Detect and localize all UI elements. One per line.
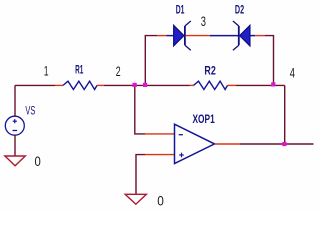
svg-text:D1: D1	[176, 3, 185, 17]
diode D2 anode lead	[250, 35, 255, 37]
svg-text:2: 2	[116, 63, 121, 79]
svg-text:4: 4	[290, 65, 295, 81]
wire: riser from node 2 up to diode branch	[145, 36, 157, 86]
diode D2 (cathode-side lead, node 3)	[210, 35, 239, 37]
svg-text:R2: R2	[204, 64, 216, 78]
svg-text:D2: D2	[235, 3, 244, 17]
ground 0 (bottom, op-amp plus input)	[125, 194, 146, 204]
wire: red stub right of R1	[97, 84, 104, 86]
wire: red segment node 3 between D1 and D2	[186, 35, 210, 37]
wire: node 2 horizontal segment	[104, 84, 190, 86]
wire: red stub at op-amp output	[215, 143, 240, 145]
voltage source VS	[5, 116, 24, 135]
wire: output run to the right	[240, 143, 314, 145]
wire: vertical VS lead above source	[14, 85, 16, 116]
wire: red stub right of D2	[255, 35, 265, 37]
wire: red stub into op-amp plus input	[145, 154, 175, 156]
resistor R1	[63, 81, 97, 89]
node junction dot at node 2 (inverting branch)	[133, 83, 137, 87]
wire: VS bottom lead	[14, 135, 16, 156]
svg-text:R1: R1	[75, 63, 83, 77]
diode D2 body	[233, 21, 250, 50]
resistor R2	[194, 81, 228, 89]
wire: main horizontal left segment node 1	[15, 84, 55, 86]
wire: red stub left of R2	[190, 84, 194, 86]
wire: plus input down to ground	[136, 155, 145, 195]
svg-text:3: 3	[201, 13, 206, 29]
svg-text:0: 0	[157, 192, 164, 208]
node junction dot at node 2 (diode branch riser)	[143, 83, 147, 87]
wire: node 4 step down to output	[284, 85, 286, 144]
svg-text:1: 1	[44, 63, 49, 79]
wire: node 2 drop to inverting input	[135, 85, 145, 133]
wire: red stub left of D1	[157, 35, 167, 37]
node junction dot at output	[282, 142, 286, 146]
ground 0 (left, under VS)	[5, 156, 25, 166]
wire: top-right corner down to node 4	[265, 36, 274, 86]
svg-text:VS: VS	[25, 105, 35, 117]
wire: node 4 horizontal to right corner	[236, 84, 285, 86]
wire: red stub left of R1	[55, 84, 63, 86]
svg-text:0: 0	[35, 153, 41, 169]
node junction dot at node 4	[271, 82, 275, 86]
wire: red stub right of R2	[228, 84, 237, 86]
diode D1 body	[174, 21, 191, 50]
svg-text:XOP1: XOP1	[193, 112, 215, 126]
op-amp U XOP1	[175, 124, 215, 163]
wire: red stub into op-amp minus input	[145, 133, 175, 135]
diode D1 (anode lead)	[167, 35, 174, 37]
